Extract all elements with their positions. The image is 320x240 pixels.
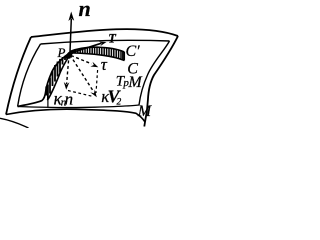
dashed vector kappa V2 (down-right from P) — [70, 55, 94, 92]
curve C' left branch (right boundary of left band) — [47, 54, 70, 101]
surface M outer sheet: right edge — [144, 36, 178, 127]
surface M outer sheet: bottom edge — [6, 109, 145, 122]
dashed vector tau (right from P) — [71, 56, 92, 64]
point P knot — [66, 50, 78, 59]
vector n arrowhead — [68, 12, 74, 22]
dashed connector kappa_n-tip to kappaV2-tip — [68, 91, 93, 97]
tangent plane TpM: right edge — [139, 41, 170, 105]
tangent plane TpM: left edge — [18, 44, 41, 107]
right band hatching — [73, 47, 124, 60]
curve C' drop tick to plane bottom edge — [47, 100, 49, 108]
svg-text:n: n — [65, 90, 74, 109]
svg-text:C′: C′ — [126, 43, 141, 60]
curve C right branch (bottom of right band) — [70, 53, 125, 61]
tangent plane TpM: top edge — [41, 40, 170, 44]
vector T arrowhead — [99, 42, 106, 47]
svg-text:M: M — [127, 74, 143, 91]
svg-text:M: M — [137, 103, 153, 120]
svg-text:2: 2 — [117, 97, 122, 107]
dashed vector kappa_n n (down from P) — [67, 55, 69, 84]
svg-text:T: T — [108, 31, 117, 45]
surface M bottom edge small second stroke at left corner — [0, 118, 29, 128]
tangent plane TpM: bottom edge — [18, 105, 139, 108]
left band hatching — [46, 55, 67, 100]
surface M outer sheet: left edge — [6, 37, 31, 115]
surface M outer sheet: top edge — [31, 29, 178, 37]
curve C' right branch (top of right band) — [70, 47, 124, 52]
dashed connector tau-tip to kappaV2-tip — [96, 70, 98, 93]
curve C left branch and tail down to plane corner — [18, 54, 69, 107]
svg-text:τ: τ — [101, 55, 108, 74]
svg-text:n: n — [79, 0, 91, 21]
svg-text:P: P — [57, 45, 66, 60]
vector n (normal) shaft — [70, 19, 71, 52]
tau arrowhead — [90, 62, 98, 67]
kappa_n n arrowhead — [64, 82, 70, 90]
kappa V2 arrowhead — [90, 90, 97, 98]
vector T shaft — [69, 43, 102, 53]
